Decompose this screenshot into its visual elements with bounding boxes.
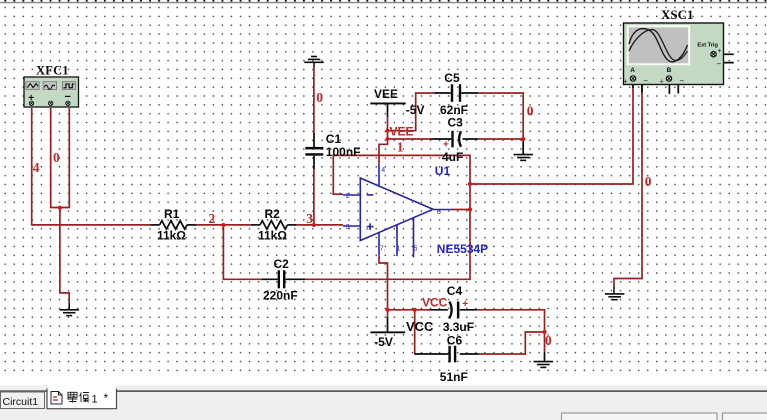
svg-text:+: + [443, 139, 449, 150]
svg-text:5: 5 [414, 245, 418, 252]
svg-text:51nF: 51nF [440, 370, 468, 384]
svg-text:+: + [28, 93, 34, 104]
svg-text:0: 0 [53, 150, 60, 165]
svg-text:+: + [462, 299, 468, 310]
svg-text:U1: U1 [435, 164, 451, 178]
svg-text:Circuit1: Circuit1 [3, 396, 39, 408]
svg-text:C3: C3 [448, 115, 464, 129]
svg-text:3.3uF: 3.3uF [443, 320, 474, 334]
svg-text:A: A [630, 67, 635, 74]
svg-text:Ext Trig: Ext Trig [697, 42, 718, 48]
svg-text:11kΩ: 11kΩ [157, 229, 186, 243]
svg-text:+: + [624, 78, 628, 85]
svg-text:−: − [717, 60, 722, 69]
svg-text:4: 4 [381, 167, 385, 174]
svg-text:−: − [65, 91, 71, 103]
svg-text:VCC: VCC [422, 295, 448, 309]
svg-text:R1: R1 [164, 207, 180, 221]
svg-text:XSC1: XSC1 [661, 7, 694, 22]
svg-text:0: 0 [545, 333, 552, 348]
svg-text:VEE: VEE [374, 87, 398, 101]
svg-text:−: − [643, 77, 648, 86]
svg-text:C2: C2 [274, 257, 290, 271]
svg-text:0: 0 [316, 90, 323, 105]
svg-text:-5V: -5V [406, 103, 425, 117]
svg-text:11kΩ: 11kΩ [258, 229, 287, 243]
svg-text:7.: 7. [380, 245, 386, 252]
svg-text:+: + [718, 48, 722, 55]
svg-text:−: − [680, 77, 685, 86]
svg-text:4uF: 4uF [442, 150, 463, 164]
svg-text:C6: C6 [447, 334, 463, 348]
svg-text:1: 1 [397, 140, 404, 155]
svg-text:100nF: 100nF [326, 145, 361, 159]
svg-text:0: 0 [527, 104, 534, 119]
svg-text:1: 1 [397, 245, 401, 252]
svg-text:*: * [104, 391, 109, 405]
svg-text:3: 3 [346, 224, 350, 231]
svg-text:0: 0 [645, 174, 652, 189]
svg-text:1: 1 [92, 394, 98, 406]
svg-text:3: 3 [306, 211, 313, 226]
svg-text:-5V: -5V [374, 335, 393, 349]
svg-text:VCC: VCC [406, 319, 434, 334]
svg-text:VEE: VEE [390, 124, 414, 138]
svg-text:2: 2 [346, 193, 350, 200]
svg-text:6: 6 [437, 209, 441, 216]
svg-text:B: B [667, 67, 672, 74]
svg-text:2: 2 [209, 211, 216, 226]
svg-text:NE5534P: NE5534P [437, 242, 488, 256]
svg-text:C4: C4 [447, 284, 463, 298]
svg-text:C5: C5 [444, 71, 460, 85]
svg-text:R2: R2 [265, 207, 281, 221]
svg-text:XFC1: XFC1 [36, 63, 69, 77]
svg-text:220nF: 220nF [263, 288, 298, 302]
svg-text:+: + [660, 78, 664, 85]
svg-text:4: 4 [33, 160, 40, 175]
